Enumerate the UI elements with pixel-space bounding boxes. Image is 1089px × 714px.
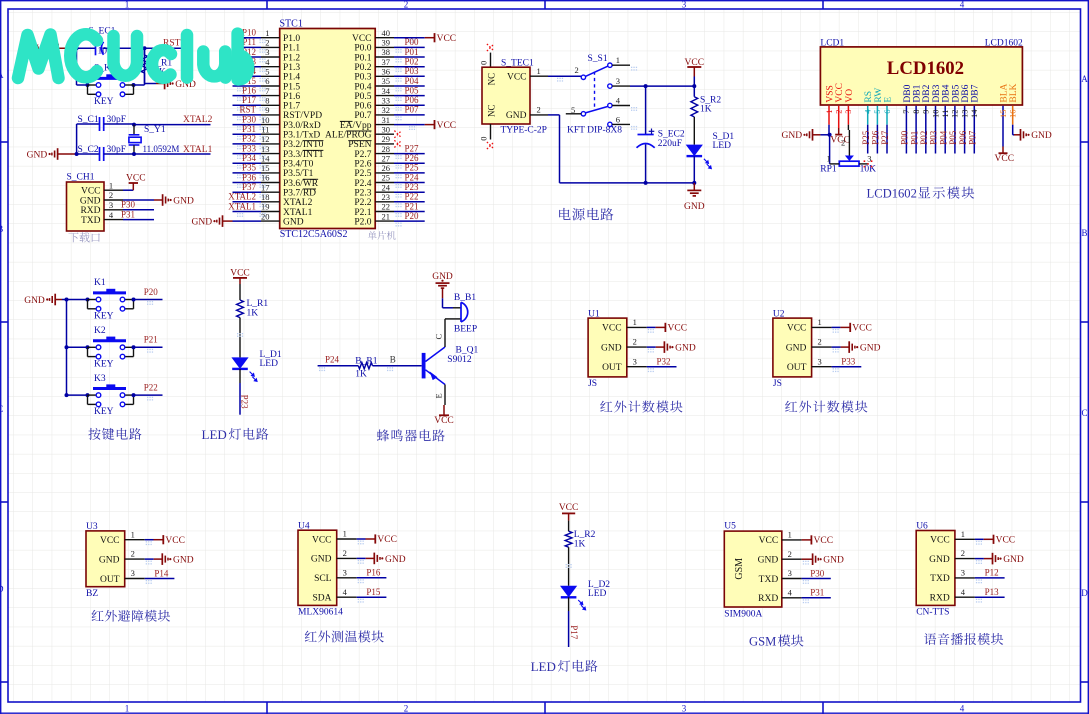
TEC1 pin 2 stub [530,114,548,116]
svg-text:NC: NC [487,104,497,117]
wire emitter [444,385,446,406]
svg-text:P25: P25 [405,163,420,173]
wire EC2 to rail [645,144,647,183]
wire net XTAL1 [233,211,262,213]
STC1 pin 38 stub [375,56,394,58]
node bottom rail cap [644,181,648,185]
svg-text:P02: P02 [919,131,929,145]
svg-text:P3.7/RD: P3.7/RD [283,189,316,199]
svg-text:S_Y1: S_Y1 [144,125,166,135]
wire K2 left [67,346,88,348]
svg-text:GND: GND [385,555,406,565]
svg-text:P24: P24 [405,172,420,182]
svg-text:9: 9 [265,105,269,115]
svg-text:1K: 1K [700,104,712,114]
STC1 pin 18 stub [261,201,280,203]
svg-text:3: 3 [788,568,792,578]
power VCC (U5) [802,539,812,541]
resistor L_R2 [565,530,595,549]
power VCC (pin 40) [425,37,435,39]
svg-text:P16: P16 [366,568,381,578]
svg-text:P2.2: P2.2 [354,198,371,208]
STC1 pin 6 stub [261,85,280,87]
svg-text:1: 1 [633,317,637,327]
U5 pin 2 stub [782,558,802,560]
svg-text:P3.2/INT0: P3.2/INT0 [283,140,324,150]
wire U5 P30 [802,578,831,580]
ground (power) [693,183,695,191]
U4 pin 4 stub [337,596,357,598]
svg-text:P22: P22 [144,383,158,393]
node (VCC-cap junction) [75,46,79,50]
svg-text:6: 6 [882,110,892,114]
svg-text:P02: P02 [405,57,419,67]
ground (U2) [841,346,850,348]
svg-text:U5: U5 [724,522,736,532]
LED L_D2 [560,580,610,610]
svg-text:P2.6: P2.6 [354,160,371,170]
U3 pin 3 stub [125,578,145,580]
wire pin 40 to VCC [394,37,425,39]
wire K1 left [67,299,88,301]
wire key right branch [144,48,146,85]
wire LCD pin1 down [829,135,831,164]
svg-text:S_C2: S_C2 [78,145,99,155]
svg-text:D: D [0,584,4,594]
svg-text:1: 1 [109,180,113,190]
svg-text:13: 13 [959,110,969,119]
title LED灯电路 (bottom) [531,659,598,674]
STC1 pin 9 stub [261,114,280,116]
svg-text:VCC: VCC [759,536,779,546]
STC1 pin 13 stub [261,153,280,155]
svg-text:OUT: OUT [100,575,120,585]
STC1 pin 26 stub [375,172,394,174]
wire net P16 [233,95,262,97]
svg-text:28: 28 [382,144,391,154]
wire net P15 [233,85,262,87]
svg-text:XTAL1: XTAL1 [228,201,256,211]
wire cap left vertical [76,124,78,154]
svg-text:P3.0/RxD: P3.0/RxD [283,121,321,131]
STC1 pin 12 stub [261,143,280,145]
LED L_D1 [231,350,282,381]
svg-text:B_B1: B_B1 [454,293,476,303]
TEC1 top stub [490,53,492,68]
svg-text:JS: JS [588,379,597,389]
svg-text:P11: P11 [242,37,256,47]
TEC1 pin 1 stub [530,75,548,77]
svg-text:P0.3: P0.3 [354,73,371,83]
wire LCD pin1 [828,106,830,125]
STC1 pin 28 stub [375,153,394,155]
svg-text:GND: GND [786,343,807,353]
svg-text:VCC: VCC [165,536,185,546]
S_S1 pin 1 stub [612,64,630,66]
svg-text:P03: P03 [405,66,420,76]
U1 pin 2 stub [627,346,647,348]
svg-text:GND: GND [675,344,696,354]
svg-text:35: 35 [382,76,391,86]
node K3 left [86,393,90,397]
STC1 pin 1 stub [261,37,280,39]
svg-text:2: 2 [343,548,347,558]
svg-text:BZ: BZ [86,589,98,599]
svg-text:BEEP: BEEP [454,325,477,335]
title 按键电路 [88,428,100,440]
U2 pin 3 stub [812,366,832,368]
svg-text:12: 12 [950,110,960,119]
svg-text:KEY: KEY [94,312,114,322]
svg-text:RXD: RXD [930,594,950,604]
svg-text:GND: GND [929,555,950,565]
wire net P12 [233,56,262,58]
svg-text:4: 4 [343,587,348,597]
svg-text:P23: P23 [240,395,250,410]
power VCC (S_CH1) [123,173,146,190]
svg-text:SCL: SCL [314,574,332,584]
wire C1 left [77,123,99,125]
S_CH1 pin 3 stub [104,209,123,211]
wire RST top [77,47,193,49]
svg-text:14: 14 [261,153,270,163]
svg-text:VCC: VCC [100,536,120,546]
svg-text:LCD1602: LCD1602 [867,187,917,201]
STC1 pin 39 stub [375,46,394,48]
wire LCD pin12 [954,106,956,154]
wire L_R1 to L_D1 [239,318,241,358]
svg-text:VO: VO [845,89,855,103]
svg-text:MLX90614: MLX90614 [298,608,343,618]
wire LCD pin10 [935,106,937,154]
svg-text:10: 10 [930,110,940,119]
svg-text:4: 4 [616,96,621,106]
wire net P14 [233,75,262,77]
wire K3 left [67,394,88,396]
wire XTAL1 [104,153,211,155]
svg-text:P24: P24 [325,355,340,365]
title 电源电路 [559,208,570,220]
svg-text:1: 1 [961,529,965,539]
node (cap-RST junction) [143,46,147,50]
svg-text:B: B [390,355,396,365]
buzzer B_B1 [445,293,477,334]
svg-text:P0.1: P0.1 [354,53,371,63]
svg-text:10: 10 [261,115,270,125]
svg-text:13: 13 [261,144,270,154]
svg-text:1: 1 [537,66,541,76]
wire keys gnd stub [62,299,67,301]
svg-text:3: 3 [682,0,687,10]
svg-text:P3.4/T0: P3.4/T0 [283,160,314,170]
STC1 pin 19 stub [261,211,280,213]
svg-text:P2.0: P2.0 [354,217,371,227]
resistor B_R1 [355,356,377,379]
svg-text:ALE/PROG: ALE/PROG [325,131,372,141]
switch S_S1 [581,63,612,127]
node bottom rail right [692,181,696,185]
module U3 body [86,531,125,587]
node key right [132,83,136,87]
svg-text:P2.4: P2.4 [354,179,371,189]
svg-text:2: 2 [788,549,792,559]
svg-text:25: 25 [382,173,391,183]
S_CH1 pin 2 stub [104,199,123,201]
power VCC (reset) [36,44,77,54]
wire LCD pin7 [905,106,907,154]
svg-text:S_C1: S_C1 [78,115,99,125]
svg-text:PSEN: PSEN [348,140,371,150]
svg-text:1: 1 [817,317,821,327]
wire U1 vcc [647,326,656,328]
wire net P34 [233,162,262,164]
svg-text:P04: P04 [938,130,948,145]
svg-text:4: 4 [961,587,966,597]
svg-text:XTAL2: XTAL2 [283,198,313,208]
U6 pin 2 stub [955,558,975,560]
svg-text:3: 3 [109,200,113,210]
node K3 right [132,393,136,397]
connector S_CH1 [67,182,105,231]
title 红外避障模块 [92,610,104,621]
wire bottom rail [560,182,695,184]
svg-text:220uF: 220uF [658,139,682,149]
wire U5 gnd [802,558,804,560]
wire S_R1 to GND [145,73,157,84]
svg-text:VCC: VCC [996,536,1016,546]
svg-text:2: 2 [265,38,269,48]
wire key left stub [77,84,88,86]
STC1 pin 16 stub [261,182,280,184]
svg-text:6: 6 [616,114,620,124]
svg-text:2: 2 [834,110,844,114]
svg-text:3: 3 [633,356,637,366]
svg-text:P3.5/T1: P3.5/T1 [283,169,314,179]
svg-text:26: 26 [382,163,391,173]
svg-text:31: 31 [382,115,391,125]
svg-text:DB2: DB2 [922,84,932,102]
svg-text:5: 5 [872,110,882,114]
svg-text:P37: P37 [242,182,257,192]
power VCC (LCD backlight) [995,147,1015,165]
svg-text:4: 4 [788,587,793,597]
svg-text:C: C [434,334,444,340]
wire U2 gnd [832,346,841,348]
wire U3 P14 [145,578,175,580]
svg-text:GND: GND [601,343,622,353]
title LCD1602显示模块 [867,187,975,201]
node crystal gnd [75,152,79,156]
wire net P00 [394,46,425,48]
svg-text:VCC: VCC [352,34,372,44]
svg-text:P0.6: P0.6 [354,102,371,112]
wire collector [444,319,446,347]
svg-text:P1.7: P1.7 [283,102,300,112]
wire pin 31 to VCC [394,124,425,126]
svg-text:P33: P33 [242,143,257,153]
svg-text:P05: P05 [948,130,958,145]
logo MCUclub [18,34,248,80]
svg-text:RXD: RXD [758,594,778,604]
wire U4 P16 [357,577,387,579]
svg-text:P20: P20 [405,211,420,221]
svg-text:E: E [883,97,893,103]
svg-text:39: 39 [382,38,391,48]
svg-text:P07: P07 [405,105,420,115]
capacitor S_C1 [78,115,127,131]
label 下载口 [68,233,78,243]
wire vcc stem [693,77,695,87]
power VCC (LED1) [230,269,250,284]
wire LCD pin3 [847,106,849,125]
svg-text:1: 1 [131,529,135,539]
svg-text:37: 37 [382,57,391,67]
svg-text:P35: P35 [242,163,257,173]
STC1 pin 33 stub [375,104,394,106]
svg-text:11: 11 [940,110,950,118]
svg-text:GND: GND [1031,131,1052,141]
wire LCD pin9 [925,106,927,154]
wire XTAL2 [134,124,211,126]
node LCD gnd [828,133,832,137]
MCU STC1 body [280,29,376,229]
svg-text:1: 1 [265,28,269,38]
svg-text:GND: GND [80,196,101,206]
svg-text:P27: P27 [405,143,420,153]
power VCC (U2) [840,326,850,328]
module U2 body [773,318,812,377]
svg-text:P30: P30 [242,114,257,124]
svg-text:C: C [1081,408,1087,418]
wire TEC1 GND right [548,114,560,116]
svg-text:RW: RW [874,88,884,103]
svg-text:P3.1/TxD: P3.1/TxD [283,131,320,141]
STC1 pin 36 stub [375,75,394,77]
title 红外测温模块 [305,631,317,642]
svg-text:P1.1: P1.1 [283,44,300,54]
wire U3 vcc [145,539,154,541]
wire net P07 [394,114,425,116]
svg-text:P07: P07 [968,130,978,145]
svg-text:P15: P15 [366,587,381,597]
wire wiper [848,130,850,156]
connector S_TEC1 [482,67,530,124]
svg-text:38: 38 [382,47,391,57]
svg-text:K2: K2 [94,326,106,336]
STC1 pin 14 stub [261,162,280,164]
svg-text:RS: RS [864,91,874,103]
STC1 pin 22 stub [375,211,394,213]
wire net P13 [233,66,262,68]
svg-text:P01: P01 [909,131,919,145]
svg-text:14: 14 [969,109,979,118]
S_S1 pin 4 stub [612,105,630,107]
U5 pin 3 stub [782,578,802,580]
svg-text:P31: P31 [242,124,256,134]
svg-text:GND: GND [758,556,779,566]
wire lcd gnd stub [820,134,829,136]
svg-text:12: 12 [261,134,270,144]
RP1 pin1 lead [830,163,840,165]
svg-text:P0.5: P0.5 [354,92,371,102]
svg-text:3: 3 [265,47,269,57]
svg-text:1: 1 [824,110,834,114]
svg-text:P06: P06 [405,95,420,105]
svg-text:P36: P36 [242,172,257,182]
wire C1 right [104,123,134,125]
U2 pin 2 stub [812,346,832,348]
STC1 pin 7 stub [261,95,280,97]
U5 pin 1 stub [782,539,802,541]
capacitor S_EC2 [637,129,685,149]
svg-text:LED: LED [713,141,732,151]
module U4 body [298,530,337,605]
wire switch to VCC rail [630,85,694,87]
svg-text:P3.3/INT1: P3.3/INT1 [283,150,324,160]
wire P31 [123,219,154,221]
wire S_R1 top [144,48,146,55]
wire net P02 [394,66,425,68]
svg-text:GSM: GSM [749,635,776,649]
resistor L_R1 [237,299,269,318]
svg-text:1: 1 [616,55,620,65]
svg-text:1K: 1K [355,369,367,379]
svg-text:DB4: DB4 [942,84,952,102]
node xtal top [132,123,136,127]
STC1 pin 3 stub [261,56,280,58]
svg-text:2: 2 [131,549,135,559]
svg-text:VCC: VCC [668,324,688,334]
wire net RST [233,114,262,116]
wire net P27 [394,153,425,155]
svg-text:GND: GND [173,556,194,566]
svg-text:P31: P31 [121,209,135,219]
STC1 pin 34 stub [375,95,394,97]
svg-text:VCC: VCC [814,536,834,546]
wire U6 gnd [975,558,984,560]
svg-text:0: 0 [479,61,489,65]
svg-text:P2.5: P2.5 [354,169,371,179]
svg-text:5: 5 [265,67,269,77]
transistor B_Q1 [422,346,479,385]
svg-text:VCC: VCC [835,83,845,103]
S_S1 pin 6 stub [612,123,630,125]
svg-text:P33: P33 [841,357,856,367]
wire K3 right [134,394,163,396]
svg-text:2: 2 [633,337,637,347]
wire U4 gnd [357,557,366,559]
U2 pin 1 stub [812,326,832,328]
svg-text:RST: RST [239,105,256,115]
STC1 pin 27 stub [375,162,394,164]
svg-text:A: A [0,70,4,80]
wire net P03 [394,75,425,77]
title 语音播报模块 [924,633,936,645]
svg-text:BLA: BLA [999,83,1009,102]
wire net P25 [394,172,425,174]
svg-text:30: 30 [382,124,391,134]
title LED灯电路 [202,427,269,442]
wire net P26 [394,162,425,164]
svg-text:VCC: VCC [602,324,622,334]
svg-text:TXD: TXD [759,575,779,585]
svg-text:P0.4: P0.4 [354,82,371,92]
svg-text:P1.4: P1.4 [283,73,300,83]
power VCC (rail) [685,58,705,77]
wire U1 gnd [647,346,656,348]
svg-text:P3.6/WR: P3.6/WR [283,179,319,189]
svg-text:A: A [1081,74,1088,84]
